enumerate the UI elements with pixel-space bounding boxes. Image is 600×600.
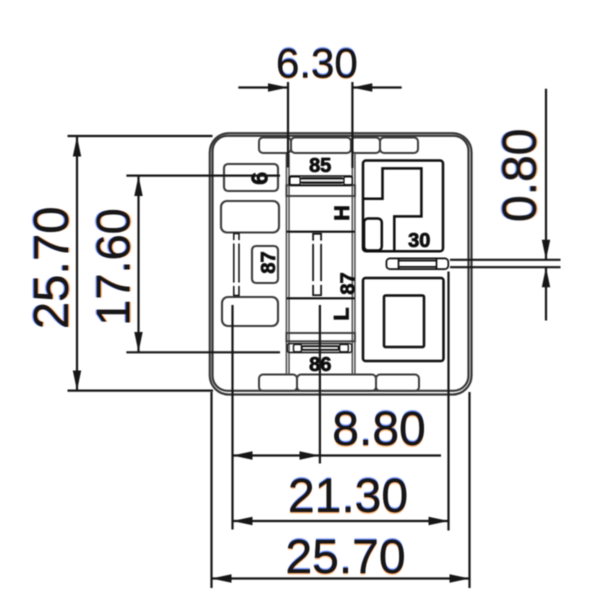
svg-text:25.70: 25.70 [285, 531, 405, 584]
svg-text:17.60: 17.60 [86, 208, 139, 326]
svg-text:30: 30 [408, 230, 430, 252]
svg-text:0.80: 0.80 [494, 129, 547, 222]
svg-text:85: 85 [309, 155, 331, 177]
svg-text:H: H [330, 205, 354, 221]
svg-text:8.80: 8.80 [332, 403, 425, 456]
svg-text:L: L [330, 307, 354, 320]
svg-text:6.30: 6.30 [276, 39, 358, 86]
svg-text:87: 87 [258, 251, 280, 273]
svg-text:6: 6 [246, 172, 272, 185]
svg-text:87: 87 [337, 272, 359, 294]
svg-text:25.70: 25.70 [25, 206, 79, 329]
svg-text:21.30: 21.30 [288, 470, 408, 523]
